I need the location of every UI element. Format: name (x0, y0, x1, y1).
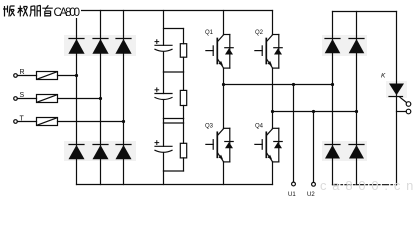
wire: ladder row 3 upper (164, 118, 184, 120)
diode D9 (right leg 1 lower) (325, 145, 340, 159)
junction midline B left (271, 110, 274, 113)
wire T to bridge (58, 121, 124, 123)
svg-text:ca800.cn: ca800.cn (320, 178, 419, 193)
junction T-leg (122, 120, 125, 123)
junction R-leg (75, 74, 78, 77)
svg-text:S: S (20, 92, 25, 99)
wire: cathode tap (397, 111, 407, 113)
glyph ban (3, 6, 15, 17)
diode D10 (right leg 2 lower) (349, 145, 364, 159)
IGBT Q2 (255, 11, 282, 112)
wire cap3 feed (163, 123, 165, 146)
glyph quan (18, 6, 28, 17)
wire: rows 3 link cap side (163, 119, 165, 124)
terminal S circle (14, 97, 18, 101)
wire S lead (18, 98, 37, 100)
diode D6 (lower) (116, 145, 132, 160)
wire: ladder row 1 (164, 28, 184, 30)
wire: right leg 1 (332, 12, 334, 185)
diode D1 (upper) (68, 39, 84, 54)
junction midline A right (331, 83, 334, 86)
wire: bridge midline B (273, 111, 357, 113)
IGBT Q1 (206, 11, 233, 85)
wire cap to next row (163, 100, 165, 119)
wire: cap column from top bus (163, 11, 165, 46)
diode D8 (right leg 2 upper) (349, 39, 365, 54)
terminal U1 circle (292, 182, 296, 186)
svg-text:Q2: Q2 (255, 30, 264, 36)
svg-text:Q4: Q4 (255, 124, 264, 130)
wire cap2 feed (163, 72, 165, 94)
wire: ladder row 4 (164, 170, 184, 172)
wire: ladder row 3 lower (164, 122, 184, 124)
junction midline B right (355, 110, 358, 113)
wire R lead (18, 75, 37, 77)
wire: right leg 2 (356, 12, 358, 185)
wire: output tap U2 (313, 112, 315, 183)
terminal: cathode circle (406, 109, 411, 114)
junction S-leg (99, 97, 102, 100)
glyph suo (30, 5, 41, 16)
wire: dash-dot bottom link (333, 184, 397, 186)
wire: rectifier leg T (123, 11, 125, 185)
terminal T circle (14, 120, 18, 124)
wire: top DC+ bus (77, 10, 273, 12)
resistor R2 (balancing) (180, 72, 186, 119)
junction midline A tap (292, 83, 295, 86)
wire: bridge midline A (224, 84, 333, 86)
fuse FUT (37, 118, 58, 126)
capacitor C2 (155, 88, 172, 100)
junction midline A left (222, 83, 225, 86)
wire: right top line (333, 11, 397, 13)
wire: rectifier leg R (76, 11, 78, 185)
terminal: gate circle (406, 102, 411, 107)
diode D3 (upper) (115, 39, 131, 54)
wire cap to next row (163, 153, 165, 172)
svg-text:K: K (381, 73, 386, 80)
wire: ladder row 2 (164, 71, 184, 73)
terminal R circle (14, 74, 18, 78)
wire: output tap U1 (293, 85, 295, 182)
wire: rows 3 link res side (183, 119, 185, 124)
svg-text:U2: U2 (307, 192, 315, 198)
wire: rectifier leg S (100, 11, 102, 185)
IGBT Q3 (206, 85, 233, 185)
diode D4 (lower) (69, 145, 85, 160)
svg-text:R: R (20, 69, 25, 76)
svg-text:CA800: CA800 (54, 7, 81, 19)
wire: right outer vertical (396, 12, 398, 185)
glyph you (42, 5, 53, 16)
fuse FUR (37, 72, 58, 80)
diode D7 (right leg 1 upper) (325, 39, 341, 54)
junction midline B tap (312, 110, 315, 113)
svg-text:T: T (20, 115, 25, 122)
capacitor C1 (155, 40, 172, 52)
wire cap to next row (163, 52, 165, 72)
copyright text 版权所有CA800 (0, 0, 81, 19)
diode D5 (lower) (93, 145, 109, 160)
capacitor C3 (155, 141, 172, 153)
terminal U2 circle (312, 182, 316, 186)
svg-text:Q3: Q3 (205, 123, 214, 129)
svg-text:Q1: Q1 (205, 30, 214, 36)
wire T lead (18, 121, 37, 123)
wire R to bridge (58, 75, 77, 77)
wire S to bridge (58, 98, 101, 100)
diode D2 (upper) (92, 39, 108, 54)
resistor R1 (balancing) (180, 29, 186, 73)
wire ladder to bottom bus (163, 171, 165, 185)
fuse FUS (37, 95, 58, 103)
IGBT Q4 (255, 112, 282, 185)
svg-text:U1: U1 (288, 192, 296, 198)
wire: bottom DC- bus (77, 184, 273, 186)
thyristor K (389, 84, 407, 103)
resistor R3 (balancing) (180, 123, 186, 171)
